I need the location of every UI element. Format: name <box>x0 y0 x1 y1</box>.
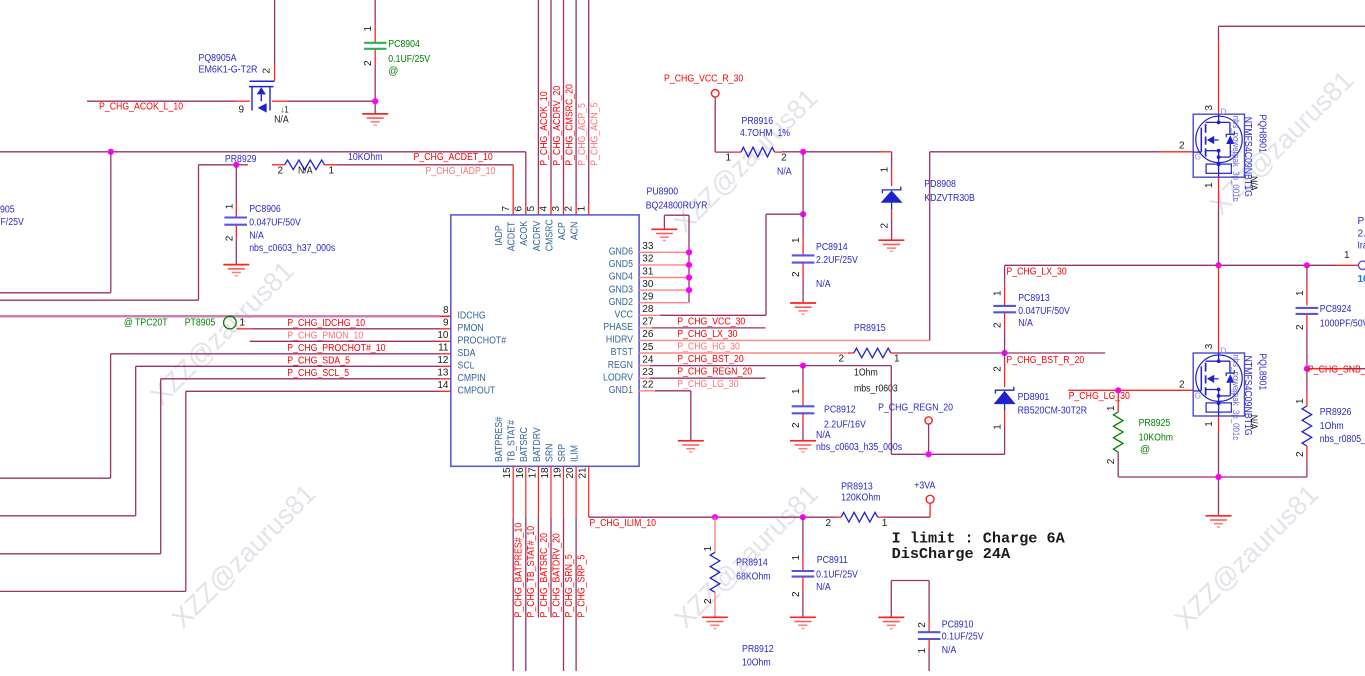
pin 6 ACDET PU8900 <box>507 206 525 252</box>
diode PD8901 <box>994 387 1016 404</box>
svg-text:2: 2 <box>262 68 273 74</box>
pin 30 GND3 PU8900 <box>609 279 654 295</box>
label PC8910 <box>942 620 974 631</box>
wire PC8912 pin2 to ground <box>802 413 804 441</box>
svg-text:nbs_powerpak_3p_001c: nbs_powerpak_3p_001c <box>1231 116 1241 202</box>
pin 31 GND4 PU8900 <box>609 266 654 282</box>
svg-text:N/A: N/A <box>298 165 313 176</box>
svg-text:2: 2 <box>1295 451 1306 457</box>
wire P_CHG_ACOK_10 <box>537 0 539 215</box>
value N/A PR8916 <box>777 167 792 178</box>
pin 1 PR8913 <box>882 518 888 529</box>
svg-text:P_CHG_BATSRC_20: P_CHG_BATSRC_20 <box>539 533 550 618</box>
pin 2 PC8910 <box>917 622 928 628</box>
svg-text:1: 1 <box>1204 182 1215 188</box>
pin 2 PQL8901 <box>1179 379 1185 390</box>
svg-text:PC8905: PC8905 <box>0 204 15 215</box>
pin 1 PC8906 <box>224 203 235 209</box>
svg-text:DisCharge 24A: DisCharge 24A <box>892 545 1011 563</box>
svg-text:P_CHG_ACOK_10: P_CHG_ACOK_10 <box>539 91 550 166</box>
svg-text:PT8905: PT8905 <box>185 317 216 328</box>
pin 1 PC8911 <box>791 555 802 561</box>
wire PD8908 pin2 to ground <box>891 203 893 240</box>
svg-text:25: 25 <box>642 342 654 353</box>
junction phase/PC8924 <box>1304 262 1310 268</box>
label PC8906 <box>249 204 281 215</box>
pin 1 PR8915 <box>894 354 900 365</box>
label PC8914 <box>816 242 848 253</box>
svg-text:28: 28 <box>642 304 654 315</box>
svg-text:PR8912: PR8912 <box>742 644 774 655</box>
svg-text:10: 10 <box>437 330 449 341</box>
svg-text:1000PF/50V: 1000PF/50V <box>1320 319 1365 330</box>
svg-text:5: 5 <box>526 206 537 212</box>
svg-text:1: 1 <box>329 165 335 176</box>
wire GND pin 29 stub <box>639 302 689 304</box>
svg-text:1Ohm: 1Ohm <box>1320 421 1344 432</box>
value EM6K1-G-T2R <box>199 64 258 75</box>
wire P_CHG_LX_30 stub (pin 27) <box>639 327 765 329</box>
svg-text:PR8926: PR8926 <box>1320 407 1352 418</box>
pin 2 PR8914 <box>703 598 714 604</box>
label PT8905 <box>185 317 216 328</box>
svg-text:GND3: GND3 <box>609 284 634 295</box>
svg-text:21: 21 <box>578 467 589 479</box>
wire P_CHG_SCL_5 (pin 12) <box>0 366 451 516</box>
pin 2 PR8915 <box>838 354 844 365</box>
pin 11 SDA PU8900 <box>438 343 476 359</box>
svg-text:PI: PI <box>1358 216 1365 227</box>
svg-text:2: 2 <box>1295 324 1306 330</box>
pin 1 PR8926 <box>1295 398 1306 404</box>
value N/A PR8929 <box>298 165 313 176</box>
junction LG/PR8925 <box>1115 387 1121 393</box>
resistor PR8926 <box>1302 406 1312 446</box>
pin 5 ACOK PU8900 <box>519 206 537 246</box>
svg-text:nbs_powerpak_3p_001c: nbs_powerpak_3p_001c <box>1231 354 1241 440</box>
capacitor PC8911 <box>792 571 815 577</box>
ground PU8900 GND pins <box>651 229 677 240</box>
svg-text:PC8910: PC8910 <box>942 620 974 631</box>
svg-text:2: 2 <box>917 622 928 628</box>
test point PT8905 <box>224 316 237 329</box>
svg-text:GND6: GND6 <box>609 247 634 258</box>
wire P_CHG_ACP_5 <box>575 0 577 215</box>
svg-text:P_CHG_SNB_30: P_CHG_SNB_30 <box>1308 364 1365 375</box>
svg-text:P_CHG_REGN_20: P_CHG_REGN_20 <box>677 367 752 378</box>
value 4.7OHM 1% PR8916 <box>740 128 790 139</box>
svg-text:TB_STAT#: TB_STAT# <box>507 420 518 462</box>
svg-text:CMPOUT: CMPOUT <box>458 386 496 397</box>
pin 2 PC8911 <box>791 591 802 597</box>
label PU8900 <box>647 186 679 197</box>
pin 14 CMPOUT PU8900 <box>437 380 495 396</box>
svg-text:PHASE: PHASE <box>603 322 633 333</box>
pin 27 PHASE PU8900 <box>603 317 654 333</box>
svg-text:nbs_r0805_: nbs_r0805_ <box>1320 434 1365 445</box>
net label P_CHG_VCC_30 <box>677 316 745 327</box>
label PC8912 <box>824 404 856 415</box>
svg-text:nbs_c0603_h35_000s: nbs_c0603_h35_000s <box>816 442 902 453</box>
svg-text:1: 1 <box>1204 421 1215 427</box>
svg-text:P_CHG_VCC_30: P_CHG_VCC_30 <box>677 316 745 327</box>
svg-text:HIDRV: HIDRV <box>606 335 633 346</box>
net label P_CHG_SNB_30 <box>1308 364 1365 375</box>
svg-text:6: 6 <box>513 206 524 212</box>
value 0.1UF/25V PC8910 <box>942 632 984 643</box>
wire CMPIN (pin 13) <box>0 379 451 554</box>
net label P_CHG_HG_30 <box>677 341 740 352</box>
junction ILIM/PC8911 <box>800 514 806 520</box>
wire PC8924 pin2 <box>1306 314 1308 369</box>
svg-text:1: 1 <box>917 648 928 654</box>
pin 3 PQH8901 <box>1204 105 1215 111</box>
svg-text:1: 1 <box>791 555 802 561</box>
wire P_CHG_BATSRC_20 (pin 17) <box>537 466 539 617</box>
transistor PQH8901 <box>1193 108 1244 178</box>
svg-text:CMPIN: CMPIN <box>458 373 486 384</box>
value N/A PC8911 <box>816 582 831 593</box>
svg-text:P_CHG_IDCHG_10: P_CHG_IDCHG_10 <box>287 318 365 329</box>
svg-text:0.1UF/25V: 0.1UF/25V <box>816 569 858 580</box>
wire P_CHG_ACN_5 <box>588 0 590 215</box>
svg-text:2: 2 <box>791 591 802 597</box>
svg-text:GND2: GND2 <box>609 297 634 308</box>
net label P_CHG_SRP_5 <box>577 554 588 617</box>
net label P_CHG_ACOK_L_10 <box>99 101 183 112</box>
svg-text:P_CHG_ACN_5: P_CHG_ACN_5 <box>590 102 601 166</box>
svg-text:2: 2 <box>993 322 1004 328</box>
capacitor PC8912 <box>792 406 815 413</box>
svg-text:22: 22 <box>642 380 654 391</box>
pin 2 PC8906 <box>224 235 235 241</box>
svg-text:P_CHG_ACDRV_20: P_CHG_ACDRV_20 <box>552 85 563 165</box>
svg-text:IDCHG: IDCHG <box>458 311 486 322</box>
value N/A PC8914 <box>816 279 831 290</box>
value N/A PC8913 <box>1018 318 1033 329</box>
pin 13 CMPIN PU8900 <box>437 368 485 384</box>
pin 7 IADP PU8900 <box>494 206 512 246</box>
svg-text:P_CHG_ACP_5: P_CHG_ACP_5 <box>577 103 588 166</box>
wire P_CHG_ACDRV_20 <box>550 0 552 215</box>
pin 29 GND2 PU8900 <box>609 292 654 308</box>
svg-text:IADP: IADP <box>494 225 505 246</box>
wire PC8910 bracket <box>891 581 929 632</box>
svg-text:PR8929: PR8929 <box>225 154 257 165</box>
svg-text:PC8924: PC8924 <box>1320 304 1352 315</box>
junction GND bus <box>686 262 692 268</box>
value 1000PF/50V PC8924 <box>1320 319 1365 330</box>
net label P_CHG_IDCHG_10 <box>287 318 365 329</box>
svg-text:2: 2 <box>224 235 235 241</box>
value nbs_powerpak_3p_001c PQL8901 <box>1231 354 1241 440</box>
junction ILIM/PR8914 <box>712 514 718 520</box>
wire PD8901 pin1 <box>1004 404 1006 454</box>
svg-text:14: 14 <box>437 380 449 391</box>
wire PC8904 pin1 <box>374 0 376 42</box>
svg-text:VCC: VCC <box>615 310 634 321</box>
wire PR8926 pin1 <box>1306 369 1308 406</box>
value 10KOhm PR8925 <box>1139 432 1174 443</box>
svg-text:nbs_c0603_h37_000s: nbs_c0603_h37_000s <box>249 243 335 254</box>
wire P_CHG_PROCHOT#_10 (pin 10) <box>250 340 451 342</box>
svg-text:1: 1 <box>882 518 888 529</box>
wire P_CHG_IADP_10 <box>199 165 514 215</box>
svg-text:P_CHG_IADP_10: P_CHG_IADP_10 <box>425 166 495 177</box>
wire GND pin 32 stub <box>639 264 689 266</box>
wire source PQL8901 to rail <box>1218 416 1220 477</box>
wire P_CHG_REGN_20 (pin 24) <box>639 366 1005 455</box>
svg-text:2: 2 <box>838 354 844 365</box>
wire P_CHG_ILIM_10 (pin 21) <box>589 466 841 517</box>
wire P_CHG_LG_30 stub (pin 23) <box>639 377 765 379</box>
net label P_CHG_ACDRV_20 <box>552 85 563 165</box>
pin 1 PC8910 <box>917 648 928 654</box>
svg-text:PU8900: PU8900 <box>647 186 679 197</box>
wire P_CHG_TB_STAT#_10 (pin 16) <box>525 466 527 671</box>
svg-text:PR8914: PR8914 <box>736 557 768 568</box>
svg-text:P_CHG_BST_20: P_CHG_BST_20 <box>677 354 744 365</box>
ground low-side rail <box>1206 516 1232 527</box>
wire PR8914 pin2 to ground <box>714 592 716 617</box>
svg-text:PR8916: PR8916 <box>742 116 774 127</box>
svg-text:120KOhm: 120KOhm <box>841 493 880 504</box>
transistor PQL8901 <box>1193 347 1244 417</box>
svg-text:SRN: SRN <box>544 444 555 463</box>
svg-text:1: 1 <box>993 290 1004 296</box>
pin 1 PC8904 <box>363 26 374 32</box>
svg-text:PQ8905A: PQ8905A <box>199 53 237 64</box>
svg-text:BATSRC: BATSRC <box>519 427 530 462</box>
svg-text:2: 2 <box>703 598 714 604</box>
value N/A PC8906 <box>249 230 264 241</box>
net label P_CHG_BATSRC_20 <box>539 533 550 618</box>
pin 17 BATSRC PU8900 <box>519 427 538 478</box>
pin 2 PC8914 <box>791 271 802 277</box>
junction rail/ground <box>1215 474 1221 480</box>
pin 1 PQL8901 <box>1204 421 1215 427</box>
svg-text:4.7OHM 1%: 4.7OHM 1% <box>740 128 790 139</box>
value N/A PC8912 <box>816 430 831 441</box>
wire CMPOUT (pin 14) <box>0 391 451 591</box>
svg-text:XZZ@zaurus81: XZZ@zaurus81 <box>145 256 300 411</box>
svg-text:P_CHG_ILIM_10: P_CHG_ILIM_10 <box>589 518 656 529</box>
svg-text:PR8913: PR8913 <box>841 481 873 492</box>
svg-text:N/A: N/A <box>249 230 264 241</box>
pin 19 SRN PU8900 <box>544 444 563 479</box>
annotation DisCharge 24A <box>892 545 1011 563</box>
label PR8913 <box>841 481 873 492</box>
svg-text:@: @ <box>388 66 398 77</box>
net label P_CHG_BATPRES#_10 <box>514 522 525 617</box>
net label P_CHG_CMSRC_20 <box>564 84 575 166</box>
svg-text:2: 2 <box>363 60 374 66</box>
label PR8929 <box>225 154 257 165</box>
wire PC8906 pin1 <box>235 165 237 217</box>
annotation @ TPC20T <box>124 317 168 328</box>
svg-text:2: 2 <box>781 153 787 164</box>
svg-text:1: 1 <box>993 424 1004 430</box>
svg-text:10KOhm: 10KOhm <box>1139 432 1174 443</box>
label PR8914 <box>736 557 768 568</box>
svg-text:Ira: Ira <box>1358 241 1365 252</box>
svg-text:SCL: SCL <box>458 361 475 372</box>
label PQL8901 <box>1257 353 1268 390</box>
wire GND pin 33 stub <box>639 251 689 253</box>
svg-text:1: 1 <box>894 354 900 365</box>
wire PC8914 pin2 to ground <box>802 263 804 303</box>
wire GND bracket PU8900 <box>664 215 689 303</box>
pin 1 PQ8905A <box>281 104 289 114</box>
wire PC8913 pin1 <box>1004 265 1006 305</box>
pin 1 PC8924 <box>1295 290 1306 296</box>
wire P_CHG_VCC_R_30 to PR8916 <box>715 97 741 152</box>
svg-text:10KOhm: 10KOhm <box>348 152 383 163</box>
junction phase/PQH-PQL <box>1215 262 1221 268</box>
wire source PQH8901 to phase <box>1218 177 1220 265</box>
svg-text:P_CHG_BATPRES#_10: P_CHG_BATPRES#_10 <box>514 522 525 617</box>
svg-text:SRP: SRP <box>557 444 568 462</box>
svg-text:+3VA: +3VA <box>914 480 935 491</box>
svg-text:2: 2 <box>825 518 831 529</box>
wire P_CHG_BATDRV_20 (pin 18) <box>550 466 552 617</box>
value N/A PQL8901 <box>1248 415 1259 430</box>
svg-text:2: 2 <box>1179 379 1185 390</box>
wire drain PQH8901 from top <box>1219 26 1365 114</box>
wire PR8915 to P_CHG_BST_R_20 <box>891 352 1105 354</box>
svg-text:PQL8901: PQL8901 <box>1257 353 1268 390</box>
value KDZVTR30B <box>924 193 975 204</box>
svg-text:N/A: N/A <box>816 279 831 290</box>
pin 8 IDCHG PU8900 <box>443 305 486 321</box>
pin 1 PC8912 <box>791 388 802 394</box>
svg-text:P_CHG_HG_30: P_CHG_HG_30 <box>677 341 740 352</box>
svg-text:33: 33 <box>642 241 654 252</box>
svg-text:PR8915: PR8915 <box>854 323 886 334</box>
svg-text:BQ24800RUYR: BQ24800RUYR <box>646 201 708 212</box>
net label P_CHG_REGN_20 (pin 24) <box>677 367 752 378</box>
svg-text:↓1: ↓1 <box>281 104 289 114</box>
value N/A PC8910 <box>942 645 957 656</box>
value N/A PQ8905A <box>274 115 289 126</box>
label PQH8901 <box>1257 115 1268 154</box>
svg-text:11: 11 <box>438 343 449 354</box>
wire PC8924 pin1 <box>1306 265 1308 305</box>
svg-text:PMON: PMON <box>458 323 484 334</box>
svg-text:3: 3 <box>1204 343 1215 349</box>
value 2.2UF/25V PC8914 <box>816 255 858 266</box>
svg-text:1: 1 <box>880 167 891 173</box>
svg-text:3: 3 <box>1204 105 1215 111</box>
svg-text:23: 23 <box>642 367 654 378</box>
svg-text:1: 1 <box>1295 398 1306 404</box>
label PR8925 <box>1139 418 1171 429</box>
wire P_CHG_CMSRC_20 <box>563 0 565 215</box>
wire low-side source rail <box>1118 477 1307 516</box>
svg-text:2: 2 <box>278 165 284 176</box>
wire PR8914 pin1 <box>714 517 716 552</box>
capacitor PC8910 <box>918 632 941 639</box>
pin 2 PD8901 <box>993 366 1004 372</box>
node P_CHG_VCC_R_30 terminal circle <box>711 90 719 98</box>
svg-text:27: 27 <box>642 317 654 328</box>
pin 1 PR8914 <box>703 546 714 552</box>
pin 2 PR8913 <box>825 518 831 529</box>
label PD8908 <box>924 179 956 190</box>
junction PR8916/VCC riser <box>800 149 806 155</box>
pin 1 ACN PU8900 <box>570 206 588 241</box>
wire drain PQL8901 <box>1218 265 1220 353</box>
pin 10 PROCHOT# PU8900 <box>437 330 506 346</box>
node phase edge connector circle <box>1358 261 1365 269</box>
svg-text:1: 1 <box>791 388 802 394</box>
svg-text:31: 31 <box>642 266 654 277</box>
svg-text:EM6K1-G-T2R: EM6K1-G-T2R <box>199 64 258 75</box>
wire REGN terminal stub <box>928 424 930 454</box>
wire P_CHG_VCC_30 (pin 28) <box>639 214 803 315</box>
pin 23 LODRV PU8900 <box>603 367 654 383</box>
wire PR8925 pin2 to rail <box>1117 452 1119 477</box>
pin 1 phase connector <box>1344 250 1350 261</box>
value 2.2UF/16V PC8912 <box>824 420 866 431</box>
label PR8912 <box>742 644 774 655</box>
svg-text:N/A: N/A <box>1248 415 1259 430</box>
value 0.1UF/25V PC8911 <box>816 569 858 580</box>
label PR8926 <box>1320 407 1352 418</box>
ground PC8912 <box>790 441 816 452</box>
svg-text:P_CHG_LG_30: P_CHG_LG_30 <box>1069 391 1131 402</box>
label PD8901 <box>1018 392 1050 403</box>
diode PD8908 <box>881 187 903 203</box>
pin 2 PC8904 <box>363 60 374 66</box>
wire VCC riser <box>802 152 804 214</box>
net label P_CHG_BST_20 <box>677 354 744 365</box>
svg-text:10: 10 <box>1358 274 1365 285</box>
svg-text:P_CHG_BATDRV_20: P_CHG_BATDRV_20 <box>551 533 562 618</box>
wire PR8916 to PD8908 <box>775 152 892 186</box>
svg-text:P_CHG_SRN_5: P_CHG_SRN_5 <box>564 554 575 618</box>
svg-text:0.047UF/50V: 0.047UF/50V <box>249 218 301 229</box>
pin 20 SRP PU8900 <box>557 444 576 479</box>
wire P_CHG_LG_30 to PQL8901 gate <box>1068 389 1193 391</box>
junction BST/PC8913/PD8901 <box>1002 350 1008 356</box>
label PC8905 (clipped) <box>0 204 15 215</box>
net label P_CHG_ILIM_10 <box>589 518 656 529</box>
svg-text:P_CHG_BST_R_20: P_CHG_BST_R_20 <box>1006 355 1084 366</box>
pin 2 PD8908 <box>880 223 891 229</box>
resistor PR8929 <box>285 160 325 170</box>
wire P_CHG_HG_30 (pin 26) to high-side gate <box>639 152 1193 341</box>
pin 12 SCL PU8900 <box>437 355 475 371</box>
wire PC8906 pin2 to ground <box>235 226 237 265</box>
wire PR8926 pin2 to rail <box>1306 446 1308 477</box>
wire PC8911 pin1 <box>802 517 804 570</box>
pin 1 PD8901 <box>993 424 1004 430</box>
wire PC8904 pin2 to ground <box>374 50 376 114</box>
svg-text:9: 9 <box>443 318 449 329</box>
pin 2 PC8924 <box>1295 324 1306 330</box>
svg-text:REGN: REGN <box>608 360 633 371</box>
svg-text:ACN: ACN <box>570 222 581 241</box>
svg-text:RB520CM-30T2R: RB520CM-30T2R <box>1018 406 1088 417</box>
wire PR8913 to +3VA <box>878 503 930 517</box>
svg-text:2: 2 <box>791 271 802 277</box>
capacitor PC8914 <box>792 255 815 262</box>
svg-text:P_CHG_VCC_R_30: P_CHG_VCC_R_30 <box>664 73 744 84</box>
net label P_CHG_LX_30 phase <box>1006 267 1067 278</box>
junction GND bus <box>686 274 692 280</box>
svg-text:@ TPC20T: @ TPC20T <box>124 317 168 328</box>
